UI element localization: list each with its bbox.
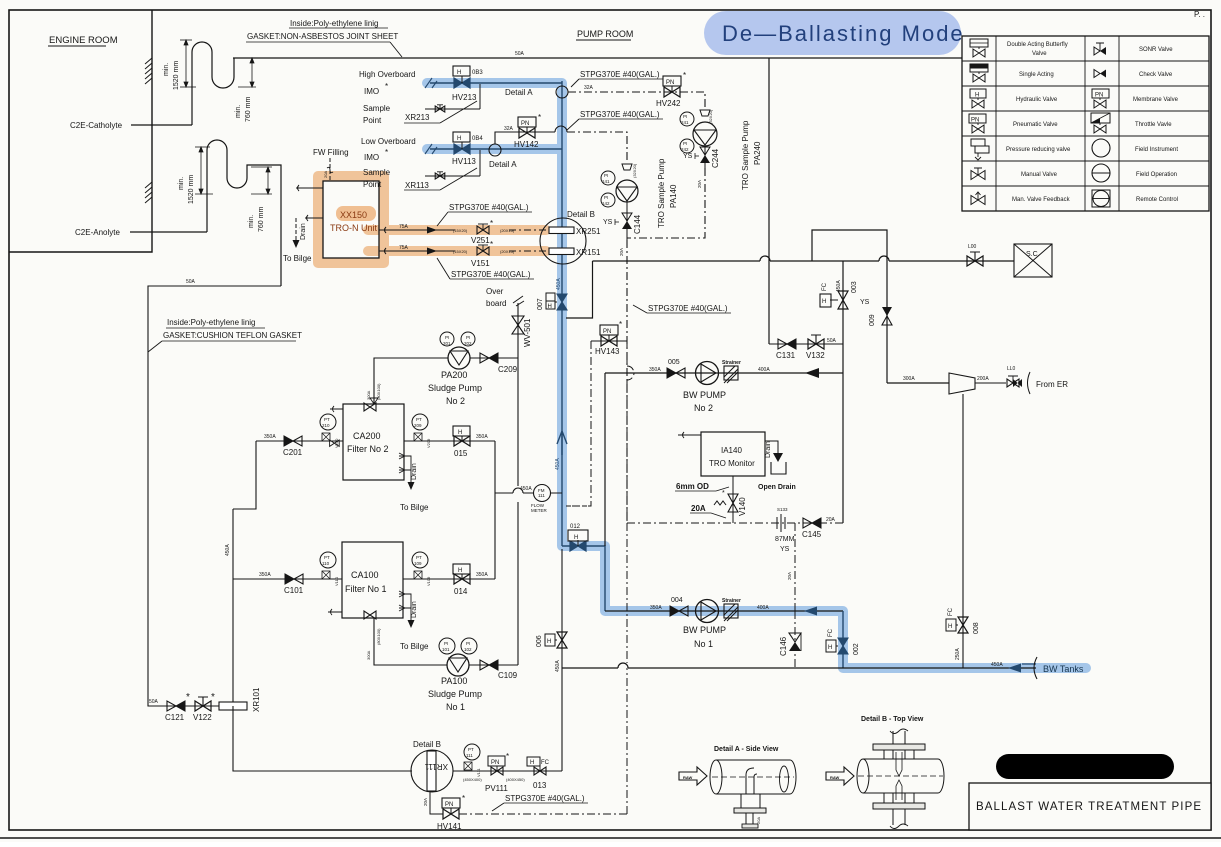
orange blob behind XX150 text <box>336 206 376 221</box>
pipe PA200 suction from filter <box>374 358 448 404</box>
svg-text:YS: YS <box>603 219 613 226</box>
svg-text:(32X20): (32X20) <box>708 109 713 124</box>
svg-text:Pneumatic Valve: Pneumatic Valve <box>1013 122 1058 128</box>
svg-text:IMO: IMO <box>364 153 379 162</box>
svg-text:Inside:Poly-ethylene linig: Inside:Poly-ethylene linig <box>290 19 379 28</box>
valve C109 <box>480 660 518 680</box>
box S.C. <box>1014 244 1052 277</box>
svg-text:Inside:Poly-ethylene linig: Inside:Poly-ethylene linig <box>167 318 256 327</box>
svg-text:(450X400): (450X400) <box>463 777 482 782</box>
svg-text:XR213: XR213 <box>405 113 430 122</box>
wire riser 562 from FM junction down <box>561 549 563 668</box>
instrument PI101 <box>439 638 455 654</box>
svg-text:H: H <box>457 70 461 76</box>
svg-text:(20X15): (20X15) <box>500 228 515 233</box>
svg-text:*: * <box>538 113 541 122</box>
node BW Tanks <box>991 657 1084 679</box>
detail B top view <box>826 716 944 829</box>
valve 003 YS <box>820 281 870 309</box>
svg-text:300A: 300A <box>903 376 915 382</box>
reducer <box>949 373 975 394</box>
legend row1: double acting butterfly / SONR <box>970 39 1173 57</box>
valve C101 <box>284 574 304 595</box>
sample line 32A to HV242 <box>568 92 705 110</box>
engine room box <box>9 10 152 252</box>
strainer BW1 <box>722 598 741 621</box>
valve L00 <box>967 244 983 266</box>
valve C144 <box>603 202 642 240</box>
valve 014 <box>453 564 488 596</box>
svg-text:METER: METER <box>531 508 548 513</box>
top deck pipe 50A <box>233 57 963 59</box>
svg-text:*: * <box>490 219 493 228</box>
svg-text:FC: FC <box>948 607 954 616</box>
svg-text:20A: 20A <box>691 504 706 513</box>
svg-text:400A: 400A <box>758 367 770 373</box>
svg-text:H: H <box>975 93 979 99</box>
svg-text:H: H <box>458 568 462 574</box>
svg-text:Point: Point <box>363 116 382 125</box>
valve C131 <box>776 339 796 360</box>
svg-text:201: 201 <box>443 341 451 346</box>
svg-text:PN: PN <box>491 760 499 766</box>
svg-text:PI: PI <box>683 114 687 119</box>
inlet line left <box>296 185 323 191</box>
svg-text:H: H <box>828 645 832 651</box>
strainer BW2 <box>722 360 741 383</box>
blue low-overboard highlight <box>427 144 562 154</box>
svg-text:*: * <box>619 320 622 329</box>
svg-text:Check Valve: Check Valve <box>1139 72 1173 78</box>
svg-text:C146: C146 <box>779 636 788 656</box>
orange highlight XX150 box <box>318 176 384 263</box>
svg-text:Detail B - Top View: Detail B - Top View <box>861 716 924 723</box>
gooseneck loop anolyte <box>207 140 281 286</box>
svg-text:FC: FC <box>828 628 834 637</box>
legend row7: man valve feedback / remote control <box>971 190 1178 207</box>
svg-text:PA140: PA140 <box>669 184 678 208</box>
svg-text:STPG370E #40(GAL.): STPG370E #40(GAL.) <box>648 304 728 313</box>
svg-text:V109: V109 <box>426 576 431 586</box>
svg-text:1520 mm: 1520 mm <box>173 61 180 90</box>
pipe sludge discharge vertical <box>517 359 519 665</box>
svg-text:V210: V210 <box>334 438 339 448</box>
node Detail B circle XR111 <box>411 740 453 792</box>
svg-text:*: * <box>186 692 190 703</box>
node From ER <box>1028 372 1031 394</box>
valve 005 <box>667 359 685 378</box>
svg-text:BW Tanks: BW Tanks <box>1043 664 1084 674</box>
orange highlight pipe run lower <box>368 246 546 256</box>
valve HV242 <box>656 71 686 108</box>
svg-text:PUMP ROOM: PUMP ROOM <box>577 29 633 39</box>
svg-text:H: H <box>574 535 578 541</box>
valve C146 <box>779 611 801 668</box>
svg-text:109: 109 <box>414 561 422 566</box>
svg-text:Strainer: Strainer <box>722 360 741 366</box>
svg-text:De—Ballasting Mode: De—Ballasting Mode <box>722 21 965 46</box>
svg-text:450A: 450A <box>836 280 842 292</box>
svg-text:H: H <box>530 760 534 766</box>
svg-text:STPG370E #40(GAL.): STPG370E #40(GAL.) <box>580 110 660 119</box>
engine room wall hatch lower <box>145 182 152 203</box>
svg-text:141: 141 <box>602 179 610 184</box>
svg-text:GASKET:CUSHION TEFLON GASKET: GASKET:CUSHION TEFLON GASKET <box>163 331 302 340</box>
svg-text:C101: C101 <box>284 586 304 595</box>
svg-text:101: 101 <box>442 647 450 652</box>
svg-text:C201: C201 <box>283 448 303 457</box>
svg-text:Strainer: Strainer <box>722 598 741 604</box>
wire blue jog <box>562 546 605 611</box>
svg-text:242: 242 <box>681 147 689 152</box>
svg-text:XR111: XR111 <box>424 762 448 771</box>
pipe PA100 suction <box>374 618 447 665</box>
svg-text:450A: 450A <box>555 458 561 470</box>
instrument PI141 <box>601 171 615 185</box>
svg-text:FW Filling: FW Filling <box>313 148 349 157</box>
svg-text:209: 209 <box>414 423 422 428</box>
valve 008 <box>946 394 980 668</box>
svg-text:760 mm: 760 mm <box>258 207 265 232</box>
legend row3: hydraulic / membrane <box>970 89 1179 108</box>
svg-text:No 1: No 1 <box>694 639 713 649</box>
svg-text:C2E-Catholyte: C2E-Catholyte <box>70 121 123 130</box>
valve 006 <box>536 632 567 672</box>
sample point XR113 <box>363 148 480 190</box>
svg-text:C131: C131 <box>776 351 796 360</box>
sample line HV143 to blue riser <box>566 341 591 506</box>
svg-text:High Overboard: High Overboard <box>359 70 415 79</box>
svg-text:*: * <box>462 794 465 803</box>
svg-text:Double Acting Butterfly: Double Acting Butterfly <box>1007 42 1068 48</box>
svg-text:PI: PI <box>604 195 608 200</box>
svg-text:*: * <box>211 692 215 703</box>
pipe XR111 to 013 <box>453 770 562 772</box>
dashed link blue to HV143 drop <box>566 505 591 507</box>
pump BW PUMP No 1 <box>683 600 726 650</box>
svg-text:*: * <box>385 82 388 91</box>
pipe run upper 75A to XR251 <box>379 224 546 234</box>
svg-text:250A: 250A <box>955 648 961 660</box>
pipe bottom main to BW tanks <box>562 663 1036 668</box>
meter FM111 flow meter <box>520 485 551 514</box>
svg-text:C209: C209 <box>498 365 518 374</box>
svg-text:007: 007 <box>537 298 544 310</box>
wire pump room boundary vertical <box>768 58 770 344</box>
svg-text:S.C.: S.C. <box>1026 251 1040 258</box>
svg-text:350A: 350A <box>476 572 488 578</box>
sample line PA240 down <box>627 168 705 238</box>
svg-text:Drain: Drain <box>411 463 418 480</box>
svg-text:H: H <box>948 624 952 630</box>
svg-text:WV-501: WV-501 <box>523 318 532 347</box>
dimension min.760mm catholyte <box>238 58 256 87</box>
node Detail B circle <box>540 210 601 264</box>
pipe PA200 discharge <box>470 357 518 359</box>
svg-text:TRO-N Unit: TRO-N Unit <box>330 223 377 233</box>
valve 004 <box>670 597 688 616</box>
sample line x627 mid <box>626 523 628 663</box>
pump PA200 sludge pump <box>448 347 470 369</box>
pipe left 450A drop from C201 <box>233 441 256 706</box>
pump PA100 sludge pump <box>447 654 469 676</box>
svg-text:BW PUMP: BW PUMP <box>683 390 726 400</box>
svg-text:Drain: Drain <box>411 601 418 618</box>
dimension min.1520mm anolyte <box>195 147 213 194</box>
svg-text:PA240: PA240 <box>753 141 762 165</box>
svg-text:No 2: No 2 <box>694 403 713 413</box>
svg-text:C121: C121 <box>165 713 185 722</box>
svg-text:Low Overboard: Low Overboard <box>361 137 416 146</box>
pipe PA100 discharge <box>469 664 518 666</box>
valve C209 <box>480 353 518 374</box>
svg-text:50A: 50A <box>827 338 837 344</box>
svg-text:V251: V251 <box>471 236 490 245</box>
svg-text:BALLAST WATER TREATMENT PIPE: BALLAST WATER TREATMENT PIPE <box>976 801 1202 813</box>
svg-text:FC: FC <box>541 760 550 766</box>
svg-text:PI: PI <box>604 173 608 178</box>
svg-text:Detail B: Detail B <box>413 740 441 749</box>
filter CA200 box <box>330 403 404 480</box>
svg-text:008: 008 <box>973 622 980 634</box>
svg-text:TRO Sample Pump: TRO Sample Pump <box>741 120 750 190</box>
svg-text:(400X450): (400X450) <box>506 777 525 782</box>
svg-text:(32X20): (32X20) <box>632 163 637 178</box>
svg-text:C109: C109 <box>498 671 518 680</box>
svg-text:Field Instrument: Field Instrument <box>1135 147 1178 153</box>
pipe run lower 75A to XR151 <box>379 245 546 255</box>
svg-text:PN: PN <box>971 118 979 124</box>
valve HV213 <box>452 66 483 102</box>
orange highlight pipe run upper <box>368 225 546 235</box>
svg-text:PT: PT <box>416 417 422 422</box>
svg-text:(15X20): (15X20) <box>453 228 468 233</box>
valve 002 <box>826 628 860 655</box>
sample line 20A horizontal <box>627 522 843 524</box>
pipe C131 V132 branch <box>769 343 843 345</box>
svg-text:PA100: PA100 <box>441 676 467 686</box>
detail A side view <box>679 746 796 828</box>
valve HV113 <box>452 132 483 166</box>
valve C121 <box>165 692 190 722</box>
svg-text:PT: PT <box>468 747 474 752</box>
valve V132 <box>806 335 837 360</box>
svg-text:20A: 20A <box>697 180 702 188</box>
svg-text:002: 002 <box>853 643 860 655</box>
svg-text:350A: 350A <box>259 572 271 578</box>
svg-text:004: 004 <box>671 597 683 604</box>
svg-text:400A: 400A <box>757 605 769 611</box>
svg-text:C2E-Anolyte: C2E-Anolyte <box>75 228 120 237</box>
svg-text:HV141: HV141 <box>437 822 462 831</box>
svg-text:L00: L00 <box>968 244 977 250</box>
filter CA100 box <box>328 542 403 619</box>
pipe 50A from anolyte <box>148 286 281 706</box>
svg-text:Manual Valve: Manual Valve <box>1021 172 1058 178</box>
node Detail A (high) <box>556 86 568 98</box>
svg-text:PN: PN <box>445 802 453 808</box>
legend row4: pneumatic / throttle <box>969 113 1172 133</box>
svg-text:210: 210 <box>322 423 330 428</box>
svg-text:(80X100): (80X100) <box>376 628 381 645</box>
svg-text:Detail A: Detail A <box>489 160 517 169</box>
svg-text:XR151: XR151 <box>576 248 601 257</box>
svg-text:Drain: Drain <box>765 441 772 458</box>
wire corner into blue riser <box>566 261 593 318</box>
svg-text:20A: 20A <box>787 572 792 580</box>
svg-text:009: 009 <box>869 314 876 326</box>
svg-text:350A: 350A <box>264 434 276 440</box>
svg-text:20A: 20A <box>423 798 428 806</box>
svg-text:300A: 300A <box>366 650 371 660</box>
svg-text:005: 005 <box>668 359 680 366</box>
svg-text:450A: 450A <box>520 486 532 492</box>
valve 007 on riser <box>537 293 567 310</box>
svg-text:006: 006 <box>536 635 543 647</box>
pipe filter1 inlet <box>233 578 342 580</box>
svg-text:Pressure reducing valve: Pressure reducing valve <box>1006 147 1071 153</box>
svg-text:6mm OD: 6mm OD <box>676 482 709 491</box>
svg-text:STPG370E #40(GAL.): STPG370E #40(GAL.) <box>449 203 529 212</box>
svg-text:YS: YS <box>860 299 870 306</box>
svg-text:Over: Over <box>486 287 504 296</box>
svg-text:Remote Control: Remote Control <box>1136 197 1178 203</box>
pipe filter2 outlet via 015 <box>404 440 495 442</box>
redaction bar <box>996 754 1174 779</box>
valve V151 <box>471 240 493 268</box>
node Detail A (low) <box>489 144 501 156</box>
svg-text:350A: 350A <box>476 434 488 440</box>
svg-text:SONR Valve: SONR Valve <box>1139 47 1173 53</box>
svg-text:75A: 75A <box>399 224 409 230</box>
title box <box>969 783 1211 830</box>
svg-text:YS: YS <box>683 153 693 160</box>
svg-text:BW PUMP: BW PUMP <box>683 625 726 635</box>
filter CA200 drain <box>399 453 429 512</box>
svg-text:V122: V122 <box>193 713 212 722</box>
svg-text:min.: min. <box>178 177 185 190</box>
svg-text:V209: V209 <box>426 438 431 448</box>
svg-text:50A: 50A <box>149 699 159 705</box>
svg-text:PV111: PV111 <box>485 784 508 793</box>
svg-text:Throttle Vavle: Throttle Vavle <box>1135 122 1172 128</box>
pipe manifold to flow meter <box>495 488 562 493</box>
pipe main 450A horizontal <box>593 256 1015 261</box>
svg-text:H: H <box>457 136 461 142</box>
svg-text:0B4: 0B4 <box>472 136 483 142</box>
pipe BW pump1 suction (blue route) <box>605 610 843 612</box>
svg-text:Detail A: Detail A <box>505 88 533 97</box>
valve HV141 <box>437 794 465 831</box>
overboard WV-501 branch <box>486 287 532 359</box>
hop of sample line over BW2 pipe <box>627 341 634 523</box>
filter CA100 drain <box>399 591 429 651</box>
svg-text:015: 015 <box>454 449 468 458</box>
svg-text:0B3: 0B3 <box>472 70 483 76</box>
svg-text:LL0: LL0 <box>1007 366 1016 372</box>
svg-text:GASKET:NON-ASBESTOS JOINT SHEE: GASKET:NON-ASBESTOS JOINT SHEET <box>247 32 398 41</box>
svg-text:HV213: HV213 <box>452 93 477 102</box>
pipe filter2 inlet <box>256 440 343 442</box>
svg-text:PT: PT <box>324 555 330 560</box>
pipe 450A vertical via 003 <box>842 261 844 523</box>
valve HV142 <box>514 113 541 149</box>
pump PA240 <box>693 122 717 146</box>
svg-text:Sludge Pump: Sludge Pump <box>428 689 482 699</box>
legend row6: manual valve / field operation <box>971 164 1177 182</box>
svg-text:*: * <box>385 148 388 157</box>
sample line 32A via HV142 <box>495 126 567 144</box>
svg-text:PI: PI <box>466 335 470 340</box>
svg-text:V111: V111 <box>476 767 481 777</box>
svg-text:Sludge Pump: Sludge Pump <box>428 383 482 393</box>
svg-text:Sample: Sample <box>363 168 391 177</box>
instrument PT210 <box>320 414 339 448</box>
instrument PI142 <box>601 193 615 207</box>
svg-text:Filter No 2: Filter No 2 <box>347 444 389 454</box>
svg-text:CA100: CA100 <box>351 570 379 580</box>
svg-text:350A: 350A <box>650 605 662 611</box>
svg-text:(15X20): (15X20) <box>453 249 468 254</box>
svg-text:013: 013 <box>533 781 547 790</box>
pipe x605 riser <box>604 373 606 546</box>
svg-text:102: 102 <box>464 647 472 652</box>
svg-text:board: board <box>486 299 506 308</box>
svg-text:Single Acting: Single Acting <box>1019 72 1054 78</box>
probe XR101 <box>219 687 261 712</box>
svg-text:450A: 450A <box>555 660 561 672</box>
svg-text:PT: PT <box>416 555 422 560</box>
valve 013 <box>527 757 550 790</box>
blue de-ballasting route highlight <box>427 83 1086 668</box>
svg-text:IA140: IA140 <box>721 446 742 455</box>
gooseneck loop catholyte <box>192 42 234 125</box>
flame arrester S133 <box>775 507 795 553</box>
svg-text:202: 202 <box>464 341 472 346</box>
svg-text:C145: C145 <box>802 530 822 539</box>
svg-text:20A: 20A <box>826 517 836 523</box>
wire blue main vertical <box>561 81 563 546</box>
svg-text:111: 111 <box>466 753 473 758</box>
svg-text:S133: S133 <box>777 507 788 512</box>
instrument PI201 <box>440 332 454 346</box>
svg-text:min.: min. <box>163 63 170 76</box>
valve 012 <box>568 524 588 551</box>
svg-text:*: * <box>683 71 686 80</box>
svg-text:111: 111 <box>538 493 545 498</box>
svg-text:H: H <box>547 639 551 645</box>
svg-text:Detail A - Side View: Detail A - Side View <box>714 746 779 753</box>
legend row5: pressure reducing / field instrument <box>971 139 1178 160</box>
svg-text:32A: 32A <box>504 126 514 132</box>
instrument PI202 <box>461 332 475 346</box>
instrument PI102 <box>461 638 477 654</box>
svg-text:PI: PI <box>444 641 448 646</box>
svg-text:H: H <box>822 299 826 305</box>
svg-text:V110: V110 <box>334 576 339 586</box>
dimension min.1520mm catholyte <box>180 40 196 87</box>
svg-text:HV242: HV242 <box>656 99 681 108</box>
sample return line down to HV143 <box>626 240 628 523</box>
svg-text:TRO Sample Pump: TRO Sample Pump <box>657 158 666 228</box>
svg-text:Detail B: Detail B <box>567 210 595 219</box>
svg-text:H: H <box>458 430 462 436</box>
svg-text:760 mm: 760 mm <box>245 97 252 122</box>
pipe BW pump 2 suction <box>605 372 843 374</box>
pipe XR111 drop to HV141 <box>430 792 443 814</box>
blue riser arrow up <box>557 431 567 455</box>
svg-text:87MM: 87MM <box>775 536 795 543</box>
